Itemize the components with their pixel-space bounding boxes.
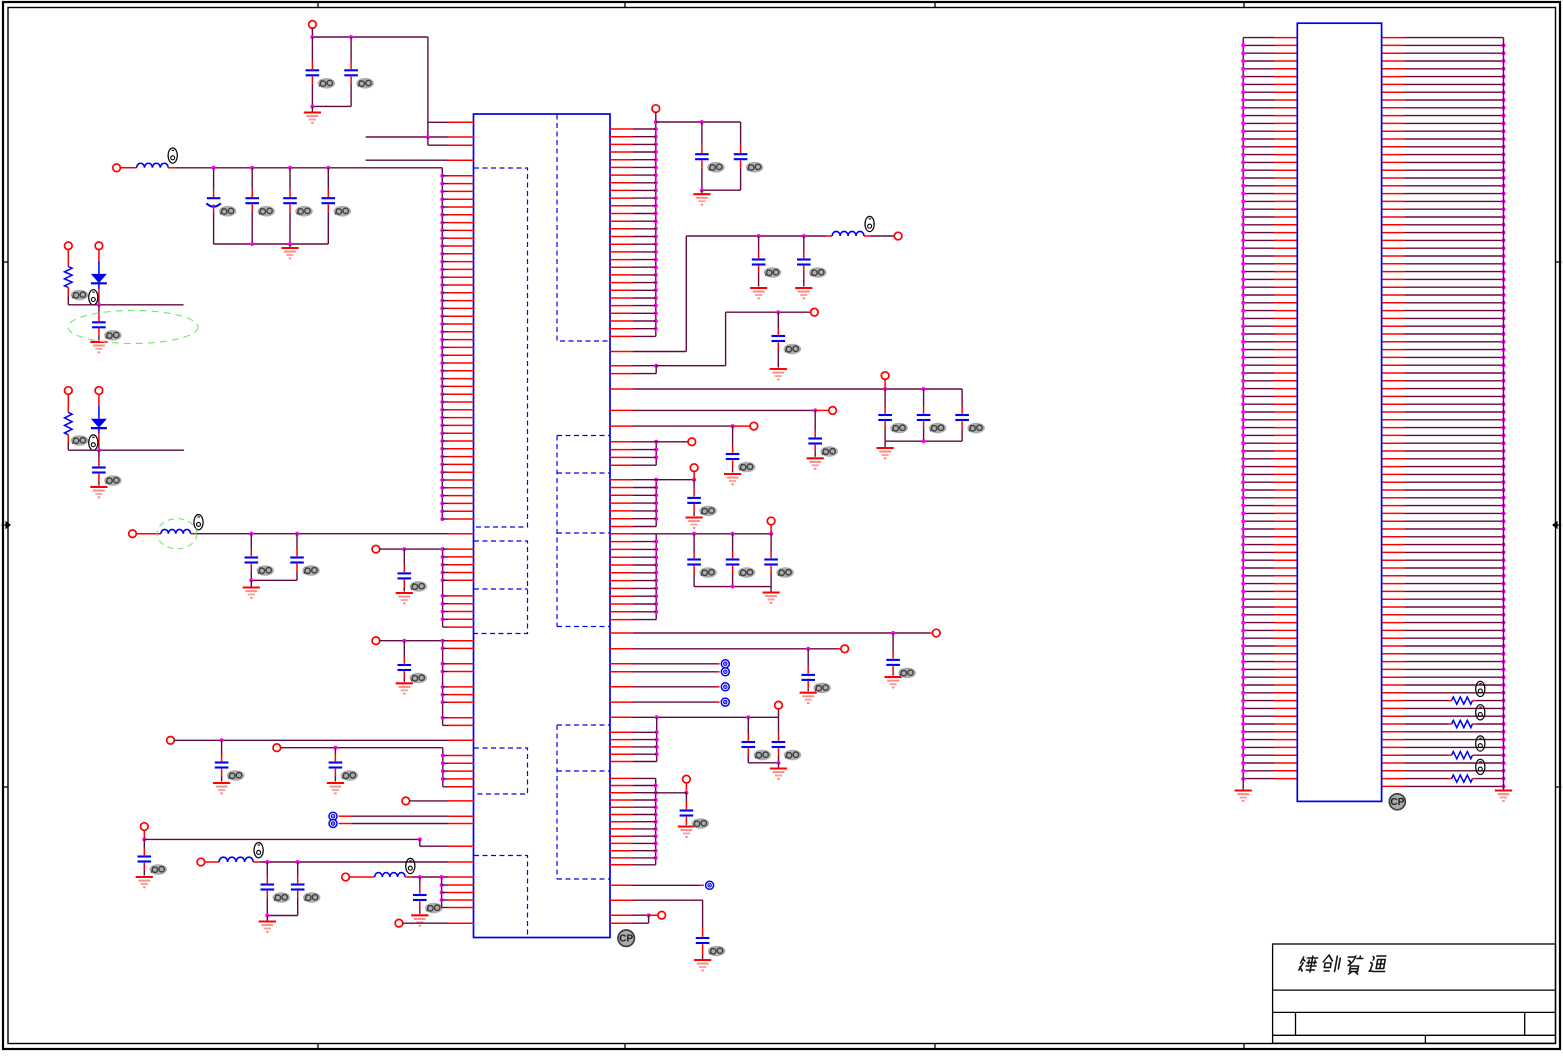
port P4 xyxy=(95,242,103,250)
label L3 xyxy=(254,843,263,858)
ground xyxy=(701,190,703,194)
ground xyxy=(289,244,291,248)
ground xyxy=(884,441,886,447)
capacitor C26 xyxy=(961,389,963,407)
wire xyxy=(174,739,449,741)
wire stub pins top-left xyxy=(428,121,449,123)
port P3 xyxy=(65,242,73,250)
wire xyxy=(197,533,449,535)
port P9 xyxy=(372,637,380,645)
port P21 xyxy=(829,407,837,415)
capacitor C4 xyxy=(251,168,253,190)
label RN4 xyxy=(1476,759,1485,774)
test point TPR4 xyxy=(609,671,633,673)
wire pin 410 xyxy=(609,409,633,411)
wire xyxy=(251,579,297,581)
wire xyxy=(409,800,448,802)
wire pin 648.8 xyxy=(609,648,633,650)
label L4 xyxy=(406,858,415,873)
capacitor C6 xyxy=(327,168,329,190)
wire pin 633 xyxy=(609,632,633,634)
wire xyxy=(412,876,449,878)
capacitor C29 xyxy=(693,480,695,490)
resistor RN4 xyxy=(1404,778,1448,780)
capacitor C8 xyxy=(98,450,100,459)
capacitor C3 polarized xyxy=(213,168,215,190)
port P20 xyxy=(881,372,889,380)
label D2 xyxy=(89,435,98,450)
diode D1 xyxy=(98,249,100,261)
port P22 xyxy=(750,422,758,430)
capacitor C15 xyxy=(143,839,145,848)
wire xyxy=(885,440,962,442)
company name glyphs xyxy=(1299,956,1318,972)
port P27 xyxy=(841,645,849,653)
capacitor C14 xyxy=(334,748,336,754)
wire pin 717 rail xyxy=(609,716,633,718)
capacitor C19 xyxy=(701,122,703,146)
svg-text:CP: CP xyxy=(619,934,633,945)
ground xyxy=(778,763,780,768)
wire bus left run1 xyxy=(441,168,443,519)
port P24 xyxy=(690,464,698,472)
test point TP2 xyxy=(329,820,337,828)
capacitor C11 xyxy=(403,549,405,565)
test point TPR7 xyxy=(609,884,633,886)
wire bus right c5 xyxy=(655,480,657,527)
capacitor C32 xyxy=(770,534,772,551)
test point TPR6 xyxy=(609,701,633,703)
wire xyxy=(267,915,297,917)
capacitor C7 xyxy=(98,305,100,314)
capacitor C37 xyxy=(685,793,687,802)
inductor L4 xyxy=(349,876,375,878)
IC U1 internal dashed blocks xyxy=(557,115,610,342)
capacitor C5 xyxy=(289,168,291,190)
port P23 xyxy=(688,438,696,446)
port P25 xyxy=(767,517,775,525)
label R2 xyxy=(71,435,89,446)
wire pin 900 cap xyxy=(609,899,633,901)
port P14 xyxy=(197,858,205,866)
capacitor C30 xyxy=(693,534,695,551)
port P6 xyxy=(95,387,103,395)
connector right pins xyxy=(1382,37,1404,39)
wire pin 389 rail xyxy=(609,388,633,390)
port P12 xyxy=(402,797,410,805)
ground xyxy=(266,916,268,922)
port P15 xyxy=(342,873,350,881)
capacitor C35 xyxy=(747,717,749,733)
capacitor C31 xyxy=(732,534,734,551)
wire node xyxy=(68,304,183,306)
port P28 xyxy=(775,701,783,709)
port P8 xyxy=(372,545,380,553)
inductor L2 xyxy=(136,533,161,535)
resistor RN3 xyxy=(1404,754,1448,756)
label L2 xyxy=(194,515,203,530)
resistor R1 xyxy=(67,249,69,266)
port P1 top xyxy=(309,21,317,29)
capacitor C38 xyxy=(702,928,704,937)
port P2 xyxy=(113,164,121,172)
label RN3 xyxy=(1476,736,1485,751)
capacitor C1 xyxy=(311,37,313,62)
label RN2 xyxy=(1476,705,1485,720)
wire xyxy=(871,235,895,237)
connector J1 body xyxy=(1297,23,1381,801)
ground xyxy=(694,960,711,970)
wire pins 365/373 xyxy=(609,365,633,367)
capacitor C17 xyxy=(297,862,299,876)
ground xyxy=(770,587,772,592)
label CP2 xyxy=(1389,794,1405,810)
wire bus right c8 xyxy=(655,778,657,864)
ground xyxy=(311,106,313,112)
wire xyxy=(311,28,313,37)
wire cap tap xyxy=(654,120,658,124)
capacitor C23 xyxy=(777,312,779,327)
wire xyxy=(260,861,449,863)
wire xyxy=(380,640,443,642)
capacitor C22 xyxy=(803,236,805,251)
label R1 xyxy=(71,290,89,301)
wire bus right c7 xyxy=(656,717,658,761)
ground xyxy=(1495,791,1512,801)
capacitor C28 xyxy=(732,426,734,445)
port P26 xyxy=(933,629,941,637)
label CP1 xyxy=(618,930,634,946)
port P11 xyxy=(273,744,281,752)
port P17 xyxy=(652,105,660,113)
wire xyxy=(143,830,145,840)
port P29 xyxy=(683,775,691,783)
wire bus left run3 xyxy=(442,641,444,726)
ground xyxy=(1242,779,1244,790)
inductor L3 xyxy=(204,861,219,863)
capacitor C16 xyxy=(266,862,268,876)
diode D2 xyxy=(98,394,100,406)
wire xyxy=(694,586,771,588)
wire bus right run1 xyxy=(655,112,657,336)
highlight circle xyxy=(157,519,197,549)
wire pins 915/923 port xyxy=(609,914,633,916)
capacitor C13 xyxy=(221,740,223,754)
capacitor C24 xyxy=(884,389,886,407)
wire bus right c6 xyxy=(655,534,657,620)
capacitor C10 xyxy=(296,534,298,549)
test point TPR3 xyxy=(609,663,633,665)
wire xyxy=(402,922,448,924)
wire xyxy=(312,105,351,107)
port P30 xyxy=(658,911,666,919)
title block xyxy=(1273,944,1556,1043)
wire node xyxy=(68,449,184,451)
test point TP1 xyxy=(329,812,337,820)
wire xyxy=(280,747,443,749)
capacitor C36 xyxy=(778,717,780,733)
label D1 xyxy=(89,290,98,305)
wire xyxy=(702,189,741,191)
port P5 xyxy=(65,387,73,395)
port P13 xyxy=(141,823,149,831)
test point TPR5 xyxy=(609,686,633,688)
port P19 xyxy=(811,308,819,316)
resistor RN2 xyxy=(1404,723,1448,725)
resistor RN1 xyxy=(1404,700,1448,702)
capacitor C18 xyxy=(419,877,421,887)
svg-text:CP: CP xyxy=(1390,797,1404,808)
capacitor C20 xyxy=(740,122,742,146)
capacitor C25 xyxy=(923,389,925,407)
capacitor C2 xyxy=(350,37,352,62)
capacitor C33 xyxy=(892,633,894,651)
capacitor C9 xyxy=(250,534,252,549)
wire pin 351 to inductor rail xyxy=(609,351,633,353)
label L1 xyxy=(168,148,177,163)
capacitor C27 xyxy=(814,410,816,430)
port P16 xyxy=(395,919,403,927)
wire bus right c4 xyxy=(655,442,657,465)
label RN1 xyxy=(1476,681,1485,696)
wire bus left run5 xyxy=(441,877,443,908)
wire pin 426 xyxy=(609,425,633,427)
capacitor C21 xyxy=(758,236,760,251)
label L5 xyxy=(865,216,874,231)
wire bus left run4 xyxy=(442,748,444,787)
connector left pins xyxy=(1242,38,1244,779)
ground xyxy=(250,580,252,587)
inductor L1 xyxy=(120,167,137,169)
port P7 xyxy=(129,530,137,538)
wire power rail xyxy=(176,167,442,169)
wire xyxy=(379,548,442,550)
highlight ellipse xyxy=(68,311,198,344)
inductor L5 xyxy=(826,235,832,237)
wire xyxy=(748,762,778,764)
port P10 xyxy=(167,737,175,745)
capacitor C34 xyxy=(807,649,809,667)
port P18 xyxy=(894,232,902,240)
wire bus left run2 xyxy=(442,549,444,627)
IC U1 body xyxy=(474,114,611,938)
capacitor C12 xyxy=(403,641,405,657)
resistor R2 xyxy=(67,394,69,412)
wire xyxy=(214,243,329,245)
